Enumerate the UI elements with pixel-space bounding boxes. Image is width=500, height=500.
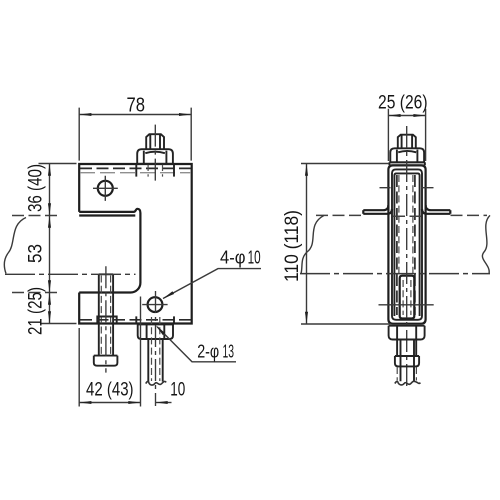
svg-text:42 (43): 42 (43) bbox=[86, 379, 134, 401]
svg-text:2-φ: 2-φ bbox=[197, 341, 219, 362]
svg-text:53: 53 bbox=[26, 244, 47, 263]
svg-text:36 (40): 36 (40) bbox=[26, 164, 47, 212]
svg-text:21 (25): 21 (25) bbox=[26, 287, 47, 335]
svg-text:25 (26): 25 (26) bbox=[378, 92, 428, 114]
svg-text:4-φ: 4-φ bbox=[220, 247, 246, 268]
svg-text:10: 10 bbox=[248, 247, 261, 268]
svg-text:78: 78 bbox=[127, 95, 146, 117]
svg-text:13: 13 bbox=[223, 341, 235, 362]
svg-text:10: 10 bbox=[170, 379, 185, 401]
svg-text:110 (118): 110 (118) bbox=[281, 210, 303, 282]
